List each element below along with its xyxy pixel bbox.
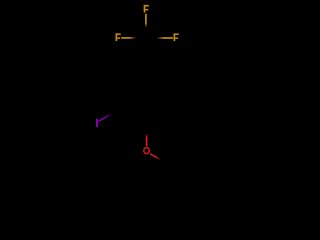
bond C4-O carbon half (black) (145, 122, 148, 138)
atom label I (iodine) : single bar (96, 119, 98, 127)
bond C7-F1 fluorine half (goldenrod, fades to black toward carbon) (145, 14, 147, 28)
bond C3-I iodine half (purple, fades to black toward carbon) (99, 114, 112, 122)
ring bond C3-C4 (122, 108, 146, 122)
bond O-C8 oxygen half (red, fades to black toward methyl) (150, 154, 161, 160)
bond C3-I carbon half (black) (110, 108, 122, 115)
bond C4-O oxygen half (red, fades to black toward carbon) (146, 134, 148, 147)
aromatic inner bond C5-C6 (165, 83, 167, 106)
bond C1-C7 (ring to CF3 carbon, black) (145, 38, 147, 66)
bond C7-F3 fluorine half (goldenrod, fades to black toward carbon) (157, 37, 173, 39)
atom label F2 (left fluorine) (116, 33, 121, 41)
ring bond C1-C2 (black, invisible on black bg) (122, 66, 146, 80)
atom label F1 (top fluorine) : stem + two arms (144, 5, 149, 13)
ring bond C2-C3 (121, 80, 123, 108)
atom label F3 (right fluorine) (174, 33, 179, 41)
ring bond C4-C5 (146, 108, 170, 122)
ring bond C5-C6 (169, 80, 171, 108)
aromatic inner bond C1-C2 (126, 71, 144, 81)
aromatic inner bond C3-C4 (126, 108, 144, 118)
ring bond C6-C1 (146, 66, 170, 80)
atom label O (methoxy oxygen) : ring (144, 148, 149, 154)
bond O-C8 methyl half (black) (159, 158, 171, 165)
bond C7-F2 fluorine half (goldenrod, fades to black toward carbon) (121, 37, 136, 39)
